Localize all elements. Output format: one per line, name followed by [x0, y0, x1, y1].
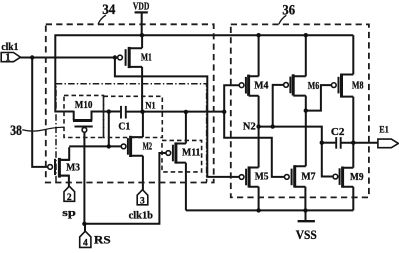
svg-text:M8: M8 — [352, 81, 364, 92]
svg-text:M10: M10 — [75, 100, 93, 111]
svg-text:VSS: VSS — [296, 228, 317, 242]
svg-text:C2: C2 — [331, 127, 345, 138]
svg-text:4: 4 — [83, 239, 88, 249]
svg-text:VDD: VDD — [133, 0, 150, 12]
svg-text:M6: M6 — [308, 81, 320, 92]
svg-text:clk1: clk1 — [1, 42, 18, 53]
svg-text:M1: M1 — [141, 53, 152, 64]
svg-text:M2: M2 — [143, 142, 153, 153]
svg-text:2: 2 — [67, 193, 72, 203]
svg-text:M3: M3 — [66, 163, 80, 174]
svg-text:RS: RS — [94, 233, 111, 247]
svg-text:36: 36 — [282, 2, 295, 18]
svg-text:M7: M7 — [301, 172, 315, 183]
svg-text:sp: sp — [62, 207, 75, 219]
svg-text:3: 3 — [140, 197, 145, 207]
svg-text:M9: M9 — [350, 172, 364, 183]
svg-text:M11: M11 — [182, 148, 200, 159]
svg-text:C1: C1 — [118, 121, 130, 132]
svg-text:38: 38 — [10, 123, 22, 139]
svg-text:N2: N2 — [243, 122, 256, 133]
svg-text:1: 1 — [5, 53, 10, 64]
svg-text:N1: N1 — [145, 102, 156, 112]
svg-text:clk1b: clk1b — [129, 210, 154, 221]
svg-text:34: 34 — [102, 2, 116, 18]
svg-text:M4: M4 — [254, 81, 269, 92]
svg-text:M5: M5 — [255, 172, 269, 183]
svg-text:E1: E1 — [379, 125, 389, 135]
